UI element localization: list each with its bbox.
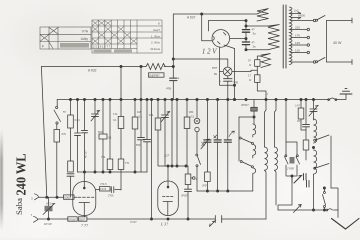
resistor tube1 anode (96, 182, 111, 191)
capacitor C4 (67, 174, 74, 197)
capacitor tuning gang 3 (224, 100, 234, 192)
speaker connector (292, 174, 309, 188)
label choke box (149, 73, 165, 78)
svg-text:1P=W: 1P=W (44, 222, 52, 226)
title Saba 240 WL (14, 154, 30, 216)
resistor R7 (149, 100, 165, 167)
resistor grid leak V2 (185, 166, 198, 185)
capacitor C5 (75, 100, 81, 173)
svg-text:V=2?: V=2? (130, 220, 137, 224)
mains taps (291, 19, 316, 63)
resistor decoupling horizontal (239, 100, 257, 162)
svg-text:125: 125 (295, 41, 300, 45)
svg-text:JP0?: JP0? (202, 185, 208, 188)
terminal phono P (194, 100, 200, 154)
chassis ground top right (340, 88, 352, 94)
svg-text:1 2 V: 1 2 V (202, 49, 217, 56)
switch wave change S1 (54, 100, 61, 125)
resistor R cathode 2 (79, 217, 87, 222)
resistor R2 (63, 100, 80, 129)
svg-text:K: K (158, 22, 160, 26)
switch mains secondary (323, 187, 326, 210)
svg-text:JP0S?: JP0S? (241, 103, 249, 107)
capacitor grid V2 (181, 185, 192, 220)
wire antenna line (39, 196, 64, 198)
capacitor C6 (82, 100, 88, 173)
svg-text:0,1: 0,1 (139, 115, 143, 119)
node grid line junctions (83, 165, 187, 173)
svg-text:570W: 570W (68, 218, 76, 222)
coil oscillator 2 (253, 145, 256, 159)
wire switch drop (56, 142, 58, 197)
wire screen feed left (41, 67, 46, 198)
svg-text:550: 550 (136, 143, 141, 147)
resistor R cathode 1 (68, 217, 77, 222)
switch mains to chassis ground (328, 94, 346, 101)
wire drop x110 (109, 100, 111, 173)
svg-text:1?0: 1?0 (295, 34, 300, 38)
svg-text:4?B: 4?B (166, 87, 171, 91)
svg-text:7: 7 (31, 213, 33, 217)
svg-text:600: 600 (98, 130, 103, 134)
svg-text:2x2: 2x2 (294, 9, 299, 13)
resistor heater dropper 2 (248, 74, 260, 83)
svg-text:45?: 45? (297, 119, 302, 123)
switch band 2 (240, 161, 253, 168)
tone network loop (285, 100, 300, 178)
svg-text:??B: ??B (233, 81, 238, 85)
svg-text:Saba: Saba (14, 198, 24, 215)
IF transformer right coil (275, 100, 278, 206)
label mains voltages (295, 26, 300, 53)
svg-text:F: F (42, 45, 45, 49)
wire cathode bottom line (38, 218, 267, 220)
svg-text:3a: 3a (253, 45, 257, 49)
svg-text:W500: W500 (298, 14, 306, 18)
switch tone 2 (314, 164, 329, 170)
capacitor C8 (136, 100, 145, 173)
svg-text:0,5: 0,5 (191, 115, 195, 119)
resistor output grid (295, 100, 306, 131)
capacitor electrolytic 1 (166, 59, 180, 100)
varistor A933 (43, 197, 55, 219)
svg-text:5?: 5? (248, 59, 251, 63)
wire HT riser (172, 14, 174, 59)
svg-text:DM: DM (189, 110, 194, 114)
switch band 1 (239, 137, 253, 144)
switch tone 1 (314, 135, 331, 188)
svg-text:A 937: A 937 (187, 16, 196, 20)
wire caps to transformer (246, 26, 268, 50)
svg-text:Ges?: Ges? (153, 28, 160, 32)
svg-text:0?k: 0?k (62, 132, 67, 136)
output transformer primary upper (314, 119, 317, 143)
resistor R5 (113, 100, 130, 191)
svg-text:7?0: 7?0 (125, 161, 130, 165)
capacitor output (297, 100, 310, 161)
resistor R3 (68, 128, 74, 172)
switch table large (92, 20, 162, 53)
rectifier tube U1 (212, 30, 230, 48)
wire heater bottom (257, 82, 266, 99)
wire main HT bus (57, 99, 329, 101)
node junction top line (201, 13, 203, 15)
capacitor tuning gang 1 (201, 100, 211, 192)
svg-text:40 W: 40 W (333, 41, 342, 45)
svg-text:UAty: UAty (81, 37, 89, 41)
svg-text:220: 220 (295, 26, 300, 30)
svg-text:1. W.kr: 1. W.kr (151, 34, 160, 38)
capacitor C filter 2 (242, 41, 256, 51)
svg-text:V?A: V?A (82, 30, 89, 34)
wire rectifier cathode drop (234, 49, 236, 100)
wire grid line y172 (78, 171, 148, 173)
resistor R8 (184, 100, 194, 167)
svg-text:5?: 5? (63, 110, 67, 114)
svg-text:+: + (219, 80, 221, 84)
capacitor C filter 1 (242, 20, 256, 42)
svg-text:70k: 70k (101, 155, 106, 159)
output transformer primary lower (314, 150, 317, 210)
svg-text:3?: 3? (97, 109, 101, 113)
switch phono (196, 142, 205, 191)
secondary winding (290, 7, 293, 65)
svg-text:13?4: 13?4 (100, 187, 107, 191)
label terminal notes (44, 222, 52, 226)
wire drop x177 (176, 100, 178, 167)
wire rectifier anode to caps (230, 38, 246, 40)
capacitor trimmer C10 (161, 100, 171, 167)
heater tap arrows (291, 12, 301, 19)
svg-text:4/7,5?: 4/7,5? (84, 150, 88, 158)
svg-text:240 WL: 240 WL (15, 154, 30, 196)
resistor heater dropper 1 (248, 56, 261, 75)
svg-text:A 932: A 932 (88, 68, 97, 72)
primary winding (173, 9, 268, 22)
voltage selector switch bottom (316, 58, 352, 65)
svg-text:5k: 5k (214, 72, 218, 76)
svg-text:A?3: A?3 (46, 202, 51, 206)
wire rectifier bottom (224, 45, 235, 49)
antenna terminal E (31, 213, 38, 222)
svg-text:+: + (178, 77, 180, 81)
capacitor electrolytic 2 (219, 76, 238, 100)
switch chassis (326, 209, 338, 218)
svg-text:0,1: 0,1 (113, 118, 117, 122)
svg-text:0r: 0r (249, 63, 251, 67)
wire risers to screen line (121, 67, 141, 100)
svg-text:0000: 0000 (64, 196, 71, 200)
dial lamp (223, 67, 232, 76)
wire drop x172 below bus (171, 100, 173, 167)
svg-text:3: 3 (31, 197, 33, 201)
tube V2 output (158, 166, 179, 216)
svg-text:JP05?: JP05? (181, 194, 189, 198)
capacitor series C11 (210, 216, 222, 227)
svg-text:J?05: J?05 (108, 195, 114, 198)
capacitor tuning gang 2 (214, 100, 222, 192)
core (283, 5, 286, 68)
wire AVC line y191 (197, 190, 253, 192)
svg-text:DM: DM (149, 113, 154, 117)
svg-text:555?: 555? (79, 218, 86, 222)
wire filament drop (220, 47, 235, 85)
wire rectifier grid to caps (208, 21, 246, 31)
resistor R antenna (64, 195, 78, 200)
svg-text:3a: 3a (253, 32, 257, 36)
svg-text:J?00R: J?00R (287, 168, 294, 171)
resistor R4 horizontal (98, 100, 112, 173)
switch table small (40, 27, 91, 49)
wire lamp to heater resistors (232, 70, 257, 71)
svg-text:J?4,5: J?4,5 (100, 182, 107, 186)
svg-text:J: J (267, 93, 269, 96)
arrow speaker return (294, 205, 302, 213)
svg-text:0r: 0r (249, 78, 251, 82)
svg-text:P5?: P5? (212, 66, 218, 70)
wire lamp feed line (173, 59, 228, 67)
wire speaker return line (278, 209, 326, 211)
svg-text:J,4?: J,4? (295, 104, 300, 108)
node bottom junctions (47, 216, 189, 221)
svg-text:2. W.kr: 2. W.kr (151, 41, 160, 45)
wire rectifier anode (202, 14, 212, 41)
resistor R on x110 (101, 155, 113, 170)
svg-text:2/2?: 2/2? (164, 154, 170, 158)
wire grid line y166 (165, 165, 188, 167)
node bus junctions (69, 98, 314, 100)
svg-text:L 3?: L 3? (160, 222, 168, 227)
wire selector link (326, 21, 328, 63)
coil oscillator 3 (253, 168, 256, 191)
earth symbol large (332, 219, 360, 230)
svg-text:+1: +1 (167, 110, 171, 114)
capacitor C9 (144, 100, 151, 173)
svg-text:? 7?: ? 7? (81, 223, 88, 228)
tube V1 RF (73, 172, 96, 217)
capacitor coupling V1 (108, 187, 121, 198)
svg-text:2 3 1 6 1 0 7 7: 2 3 1 6 1 0 7 7 (93, 44, 111, 48)
svg-text:W.kreis: W.kreis (151, 47, 161, 51)
capacitor trimmer output transformer (309, 100, 318, 121)
wire drop x151 (151, 100, 153, 220)
wire screen line A932 (41, 66, 173, 68)
wire to mains switch area (331, 188, 338, 210)
power transformer T1 (173, 5, 292, 68)
voltage selector switch top (316, 16, 352, 24)
svg-text:1?: 1? (248, 74, 251, 78)
wire lamp left stub (220, 71, 224, 73)
svg-text:110: 110 (295, 49, 300, 53)
coil oscillator 1 (253, 117, 256, 137)
antenna terminal A (31, 194, 39, 201)
resistor smoothing zigzag (146, 64, 165, 70)
svg-text:1?k: 1?k (113, 112, 118, 116)
resistor R6 (132, 100, 142, 173)
svg-text:DrE/PM?: DrE/PM? (149, 74, 160, 77)
capacitor trimmer C7 (91, 100, 100, 173)
resistor R bias (54, 124, 67, 142)
IF transformer left coil (265, 100, 268, 220)
